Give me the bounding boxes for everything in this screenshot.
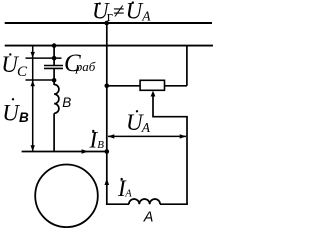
- svg-text:A: A: [143, 210, 154, 226]
- svg-text:≠: ≠: [113, 0, 125, 23]
- motor circle: [35, 165, 98, 228]
- wire: resistor right: [165, 85, 187, 87]
- label U_C: [1, 52, 28, 80]
- wire: right vertical lower: [186, 117, 188, 205]
- wire: coil B to I_B wire: [53, 113, 55, 151]
- node dot on bus 1: [104, 21, 109, 26]
- leader line4: [26, 79, 55, 81]
- label U_B: [2, 98, 29, 125]
- junction dot: [105, 84, 110, 89]
- label I_B: [89, 127, 105, 152]
- voltage dimension vertical line: [32, 46, 34, 152]
- wiper arrowhead: [151, 91, 156, 97]
- svg-text:A: A: [141, 120, 151, 135]
- svg-text:U: U: [2, 101, 20, 126]
- bus line 1 (top): [5, 22, 212, 24]
- wire: resistor left to main vertical: [107, 85, 140, 87]
- capacitor C_rab plates: [44, 66, 63, 69]
- label C_rab: [64, 50, 96, 77]
- inductor A: [129, 199, 160, 226]
- wiper arrow shaft: [152, 95, 154, 118]
- wire: cap bottom to coil: [53, 68, 55, 85]
- arrowhead down onto line3: [31, 52, 35, 58]
- svg-text:U: U: [126, 0, 144, 24]
- junction dot at I_B wire and main vertical: [105, 149, 110, 154]
- svg-text:A: A: [141, 8, 151, 23]
- bus line 2: [5, 45, 213, 47]
- junction dot on line3: [52, 56, 57, 61]
- arrowhead down onto I_B wire: [31, 145, 35, 151]
- label I_A: [117, 176, 132, 201]
- wire: right vertical upper: [186, 46, 188, 86]
- svg-text:A: A: [124, 189, 132, 200]
- svg-text:C: C: [17, 64, 28, 80]
- label U_A with dimension arrow: [126, 110, 151, 135]
- resistor R (line rheostat): [140, 80, 164, 90]
- current arrowhead I_B: [82, 149, 89, 154]
- leader line3: [26, 57, 62, 59]
- svg-text:B: B: [19, 110, 29, 125]
- svg-text:раб: раб: [75, 59, 96, 74]
- capacitor branch: stub from bus2: [53, 46, 55, 66]
- dimension arrow U_A: [108, 134, 186, 138]
- svg-text:B: B: [62, 95, 71, 110]
- arrowhead up onto line4: [31, 80, 35, 86]
- inductor B: [54, 85, 71, 114]
- wire: jog to wiper: [153, 116, 188, 118]
- current arrow I_A on main vertical: [105, 178, 110, 185]
- label U_g != U_A (top): [92, 0, 151, 25]
- wire: bottom left segment: [106, 203, 129, 205]
- svg-text:B: B: [97, 139, 104, 151]
- wire: bottom right segment: [160, 203, 188, 205]
- wire: main vertical phase A: [106, 23, 108, 205]
- junction dot on bus2: [52, 43, 57, 48]
- wire I_B horizontal: [22, 151, 107, 153]
- junction dot on line4: [52, 78, 57, 83]
